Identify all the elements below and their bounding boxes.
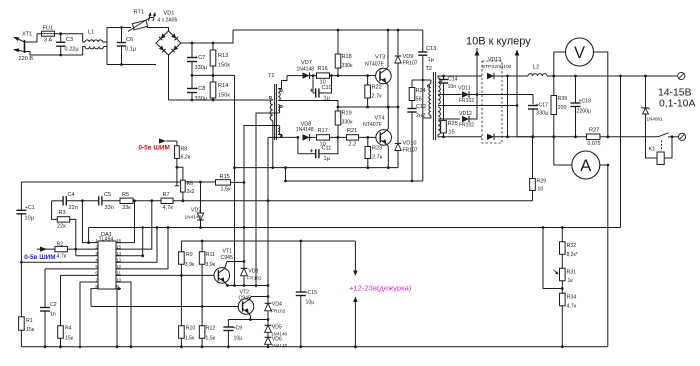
wire XT1 to fuse xyxy=(25,34,42,42)
node VD2 bottom xyxy=(199,226,202,229)
RT1 arrows xyxy=(149,13,151,21)
svg-text:330к: 330к xyxy=(342,120,354,126)
svg-text:+C17: +C17 xyxy=(536,103,549,109)
node C6 top xyxy=(120,26,123,29)
svg-text:VT3: VT3 xyxy=(375,55,385,61)
svg-text:FR102: FR102 xyxy=(271,309,286,315)
node VD11 cathode xyxy=(476,93,479,96)
wire filter vertical xyxy=(106,28,108,65)
node R35 bottom xyxy=(552,135,555,138)
svg-text:VD13: VD13 xyxy=(488,57,501,63)
node rectifier output xyxy=(506,75,509,78)
node midpoint riser on lower rail xyxy=(233,166,236,169)
node pin15 riser xyxy=(150,199,153,202)
diode VD5 1N4148 xyxy=(267,320,269,326)
resistor R13 150k xyxy=(212,43,214,50)
svg-text:FR102: FR102 xyxy=(459,122,474,128)
svg-text:R14: R14 xyxy=(218,83,228,89)
resistor R10 1.5k xyxy=(180,275,182,325)
node VT1 collector / VD3 top xyxy=(243,260,246,263)
svg-text:10µ: 10µ xyxy=(25,216,35,222)
node Y227 riser on pin1 line xyxy=(87,241,90,244)
capacitor C1 10u xyxy=(20,182,22,210)
svg-text:22к: 22к xyxy=(57,224,66,230)
svg-text:VD11: VD11 xyxy=(458,86,471,92)
svg-text:C2: C2 xyxy=(50,302,57,308)
svg-text:R25: R25 xyxy=(448,121,458,127)
connector XT1 (220V input) xyxy=(24,40,26,53)
svg-text:R4: R4 xyxy=(65,326,72,332)
node pin2/R3 xyxy=(74,248,77,251)
diode VD3 FR102 xyxy=(243,262,245,269)
svg-text:330к: 330к xyxy=(342,63,354,69)
node R23 bottom xyxy=(366,166,369,169)
svg-text:3 A: 3 A xyxy=(44,38,52,44)
svg-text:R1: R1 xyxy=(26,318,33,324)
svg-text:330µ: 330µ xyxy=(195,96,208,102)
capacitor C2 1n xyxy=(44,269,46,307)
node midpoint column on emitter line xyxy=(233,284,236,287)
output terminal + xyxy=(678,72,685,79)
wire pin6 / R4 xyxy=(61,274,95,276)
wire VT1 emitter to node xyxy=(224,282,227,286)
svg-text:R23: R23 xyxy=(372,146,382,152)
wire +12V standby rail xyxy=(181,240,355,242)
wire filter bottom to bridge xyxy=(107,64,156,66)
resistor R24 56 xyxy=(411,80,413,88)
node VD7/R16 xyxy=(312,74,315,77)
wire coil left to zener xyxy=(646,115,658,159)
svg-text:+C7: +C7 xyxy=(195,55,205,61)
node V- on shunt rail xyxy=(606,135,609,138)
node VT4 collector xyxy=(387,106,390,109)
wire VT1 collector xyxy=(224,262,244,269)
node R22 bottom xyxy=(366,106,369,109)
svg-text:C6: C6 xyxy=(126,37,133,43)
wire VT1 emitter node line xyxy=(228,285,269,287)
ammeter PA1 xyxy=(554,137,572,165)
svg-text:22n: 22n xyxy=(69,205,78,211)
svg-text:R31: R31 xyxy=(567,270,577,276)
svg-text:VD2: VD2 xyxy=(191,208,201,214)
transistor VT4 NT407F xyxy=(376,130,392,146)
diode VD6 1N4148 xyxy=(267,332,269,337)
diode VD8 1N4148 xyxy=(303,134,310,140)
wire rectifier output vertical xyxy=(507,76,509,137)
wire midpoint riser down to VT1 emitter line xyxy=(234,75,236,285)
dual schottky VD13 STPS20H100 (dashed box) xyxy=(482,61,502,143)
svg-text:C945: C945 xyxy=(221,255,234,261)
wire pin8 to VT2 base line xyxy=(91,289,94,307)
diode VD12 FR102 xyxy=(462,116,469,122)
svg-text:15к: 15к xyxy=(65,336,74,342)
capacitor C11 1u xyxy=(297,137,299,153)
svg-text:150к: 150к xyxy=(218,63,230,69)
resistor R18 330k xyxy=(337,30,339,54)
wire driver lower rail xyxy=(235,167,399,169)
svg-text:200: 200 xyxy=(558,105,567,111)
svg-text:0-5в ШИМ: 0-5в ШИМ xyxy=(139,145,170,152)
node column on Y227 xyxy=(243,226,246,229)
wire VT2 collector xyxy=(249,297,268,300)
svg-text:C11: C11 xyxy=(322,146,332,152)
svg-text:1N4148: 1N4148 xyxy=(296,127,314,133)
svg-text:10µ: 10µ xyxy=(234,336,243,342)
capacitor C4 22n xyxy=(52,200,63,202)
resistor R19 330k xyxy=(337,107,339,111)
svg-text:6,2к: 6,2к xyxy=(181,155,191,161)
diode VD10 FR107 xyxy=(397,107,399,144)
svg-text:150к: 150к xyxy=(218,93,230,99)
T2 secondary winding lower xyxy=(438,107,440,135)
node C4/C5 xyxy=(81,199,84,202)
node R18 bottom xyxy=(337,74,340,77)
T2 primary winding xyxy=(429,84,431,116)
node VD8 anode xyxy=(297,136,300,139)
svg-text:R32: R32 xyxy=(567,243,577,249)
svg-text:1,5к: 1,5к xyxy=(221,187,232,193)
wire pin1 from Y201 xyxy=(82,201,94,243)
wire pin12 riser xyxy=(116,228,168,269)
wire Y227 riser to pin1 xyxy=(88,228,90,243)
resistor R17 10 xyxy=(317,135,330,140)
svg-text:1N4061: 1N4061 xyxy=(647,117,664,122)
svg-text:R12: R12 xyxy=(206,326,216,332)
wire V/A riser down xyxy=(607,165,609,347)
svg-text:330µ: 330µ xyxy=(536,111,549,117)
svg-text:3,9к: 3,9к xyxy=(185,262,195,268)
svg-text:FR107: FR107 xyxy=(403,61,418,67)
node pin9 xyxy=(118,287,121,290)
node T1 mid secondary column on emitter line xyxy=(255,284,258,287)
capacitor C18 2200u xyxy=(574,75,577,78)
svg-text:VD5: VD5 xyxy=(272,325,282,331)
wire R2 to pin2 xyxy=(68,248,95,250)
svg-text:1N4148: 1N4148 xyxy=(185,215,202,221)
resistor R3 22k xyxy=(52,201,58,220)
svg-text:R34: R34 xyxy=(567,295,577,301)
voltmeter PV1 xyxy=(554,52,566,76)
pin 7 xyxy=(94,281,98,283)
svg-text:1µ: 1µ xyxy=(428,57,435,63)
pin 9 xyxy=(116,288,121,290)
resistor R21 2.2 xyxy=(347,135,359,140)
node VD4 bottom xyxy=(267,318,270,321)
diode VD7 1N4148 xyxy=(287,75,303,77)
transistor VT2 C945 xyxy=(238,299,254,315)
svg-text:VD1: VD1 xyxy=(164,11,175,17)
svg-text:8,2к*: 8,2к* xyxy=(567,252,578,258)
node R32 top on Y227 xyxy=(561,226,564,229)
PWM input arrow (red) xyxy=(166,140,177,142)
capacitor C7 330u xyxy=(191,43,193,57)
svg-text:+C18: +C18 xyxy=(579,99,592,105)
VD13 top diode xyxy=(487,73,494,79)
wire pin4 from left rail xyxy=(21,261,94,263)
svg-text:4,7к: 4,7к xyxy=(163,205,174,211)
wire VD13 outputs join xyxy=(495,75,529,77)
capacitor C12 2n2 xyxy=(411,101,413,109)
wire VT3 collector to bus xyxy=(386,30,388,69)
svg-text:R7: R7 xyxy=(163,192,170,198)
node VT3 emitter xyxy=(387,106,390,109)
wire minus output rail xyxy=(517,136,587,138)
wire pin14 riser xyxy=(116,228,143,256)
wire T2 tap4 to VD12 xyxy=(438,118,460,120)
svg-text:C4: C4 xyxy=(68,192,75,198)
node feedback riser top xyxy=(619,75,622,78)
svg-text:2.7к: 2.7к xyxy=(372,94,383,100)
svg-text:3,9к: 3,9к xyxy=(206,262,216,268)
svg-text:L2: L2 xyxy=(533,65,539,71)
pin 3 xyxy=(94,255,98,257)
wire fuse to C3 node xyxy=(55,33,61,35)
wire bridge minus down xyxy=(168,55,170,100)
node pin13 on Y227 xyxy=(156,226,159,229)
wire T2 primary bottom xyxy=(423,116,431,182)
node L2 out xyxy=(552,75,555,78)
node VT3 collector on bus xyxy=(387,29,390,32)
svg-text:1к: 1к xyxy=(568,278,574,284)
wire pin15 riser xyxy=(116,201,152,249)
svg-text:VD9: VD9 xyxy=(403,54,414,60)
node A right xyxy=(606,164,609,167)
svg-text:1,5к: 1,5к xyxy=(206,336,216,342)
wire C3 to L1 bottom xyxy=(61,47,85,56)
node pin12 on Y227 xyxy=(167,226,170,229)
svg-text:T2: T2 xyxy=(426,66,433,72)
T1 secondary winding middle xyxy=(278,105,279,114)
wire primary return rail xyxy=(286,180,423,182)
node VD4 column on Y201 xyxy=(267,199,270,202)
svg-text:FU1: FU1 xyxy=(43,26,54,32)
node lower rail / midpoint riser xyxy=(284,166,287,169)
node rectifier output bottom xyxy=(506,135,509,138)
svg-text:VD10: VD10 xyxy=(403,141,417,147)
node R12 top on VT2 base line xyxy=(201,305,204,308)
pin 5 xyxy=(94,268,98,270)
wire C3 to L1 top xyxy=(61,34,85,42)
node R16/C10 xyxy=(330,74,333,77)
node R25 bottom xyxy=(442,135,445,138)
node C17 bottom xyxy=(532,135,535,138)
wire VT4 emitter to lower rail xyxy=(386,144,388,168)
wire R21 to VT4 base xyxy=(359,136,376,138)
node C18 bottom xyxy=(574,135,577,138)
svg-text:220 В: 220 В xyxy=(19,56,34,62)
diode VD4 FR102 xyxy=(267,297,269,304)
wire bridge plus to bus riser xyxy=(181,30,233,43)
wire pin11 to VT1 base xyxy=(116,274,214,276)
svg-text:1n: 1n xyxy=(50,312,56,318)
wire VD8 line to VD4 column xyxy=(268,136,282,138)
capacitor C14 10n xyxy=(443,76,445,79)
svg-text:15: 15 xyxy=(449,130,455,136)
node C14 top xyxy=(442,75,445,78)
resistor R35 200 xyxy=(552,75,555,78)
node R23 top xyxy=(366,136,369,139)
svg-text:C5: C5 xyxy=(104,192,111,198)
svg-text:C12: C12 xyxy=(416,104,426,110)
wire T1 bottom secondary top to VT1 collector column xyxy=(244,126,278,262)
svg-text:1µ: 1µ xyxy=(324,156,331,162)
pin 16 xyxy=(116,242,121,244)
IC DA1 TL494 xyxy=(98,241,116,289)
pin 13 xyxy=(116,261,121,263)
cooler - arrow and riser xyxy=(516,50,518,106)
svg-text:R17: R17 xyxy=(318,128,328,134)
capacitor C17 330u xyxy=(532,95,534,105)
node center-tap to rail xyxy=(516,106,518,137)
node R11 top xyxy=(201,240,204,243)
node R9 bottom on pin11 line xyxy=(180,274,183,277)
resistor R1 15k xyxy=(19,317,25,331)
node R17/R19/R21 xyxy=(337,136,340,139)
resistor R34 4.7k xyxy=(560,293,566,306)
wire T2 tap1 (top) xyxy=(438,76,482,78)
T1 secondary winding top xyxy=(278,89,280,101)
svg-text:R13: R13 xyxy=(218,53,228,59)
resistor R15 1.5k xyxy=(216,180,231,185)
node R31/R34 junction xyxy=(561,287,564,290)
svg-text:L1: L1 xyxy=(88,30,94,36)
svg-text:1,5к: 1,5к xyxy=(185,336,195,342)
wire top reference line xyxy=(21,181,215,183)
wire voltage feedback riser xyxy=(620,76,622,228)
transistor VT3 NT407F xyxy=(376,68,392,84)
resistor R23 2.7k xyxy=(367,137,369,146)
capacitor C6 0.1u xyxy=(121,28,123,43)
svg-text:R9: R9 xyxy=(186,252,193,258)
node R34 bottom xyxy=(561,345,564,348)
node C3 top xyxy=(59,32,62,35)
wire R15 right to T1/VT1 column xyxy=(231,181,245,183)
svg-text:R2: R2 xyxy=(57,241,64,247)
wire coil right to output xyxy=(664,137,672,158)
svg-text:A: A xyxy=(580,157,591,175)
wire RT1 to bridge top xyxy=(147,28,169,32)
resistor R5 33k xyxy=(102,200,120,202)
svg-text:VD6: VD6 xyxy=(272,336,282,342)
node R19 top xyxy=(337,106,340,109)
wire T1 top secondary return to node X rail xyxy=(278,101,338,108)
node T1 primary on lower rail xyxy=(271,166,274,169)
svg-text:2.2: 2.2 xyxy=(349,141,357,147)
svg-text:C945: C945 xyxy=(239,295,252,301)
capacitor C13 1u xyxy=(422,30,424,52)
svg-text:33n: 33n xyxy=(105,205,114,211)
svg-text:2к2: 2к2 xyxy=(187,189,195,195)
relay K1 coil xyxy=(661,141,663,152)
svg-text:C10: C10 xyxy=(322,85,332,91)
svg-text:4 x 2A05: 4 x 2A05 xyxy=(158,18,178,24)
resistor R4 15k xyxy=(60,275,62,325)
svg-text:R27: R27 xyxy=(589,128,599,134)
node center tap xyxy=(516,104,519,107)
wire VT4 collector to node X xyxy=(386,107,388,131)
resistor R2 4.7k (PWM input) xyxy=(37,248,55,250)
svg-text:R3: R3 xyxy=(59,210,66,216)
pin 14 xyxy=(116,255,121,257)
wire standby arrow up xyxy=(354,301,356,347)
wire pin3 from R3/R2 node xyxy=(76,255,94,257)
wire T2 tap2 to VD11 xyxy=(438,94,462,96)
node VD4 column on VT1 emitter line xyxy=(267,284,270,287)
svg-text:33к: 33к xyxy=(122,205,131,211)
node VD9 bottom xyxy=(397,106,400,109)
svg-text:NT407F: NT407F xyxy=(363,122,382,128)
wire T1 primary bottom down to driver lower rail xyxy=(272,121,274,168)
svg-text:4,7к: 4,7к xyxy=(567,304,577,310)
node C7 top xyxy=(191,42,194,45)
svg-text:0,1-10А: 0,1-10А xyxy=(659,99,695,110)
svg-text:R5: R5 xyxy=(122,192,129,198)
wire primary top xyxy=(412,79,431,81)
svg-text:VD12: VD12 xyxy=(459,111,472,117)
capacitor C3 0.22u xyxy=(60,34,62,42)
capacitor C8 330u xyxy=(191,75,193,88)
svg-text:R21: R21 xyxy=(347,128,357,134)
wire VT3 emitter to node X rail xyxy=(386,83,388,107)
wire C13 column through primary xyxy=(422,80,424,118)
svg-text:R11: R11 xyxy=(206,252,215,258)
svg-text:T1: T1 xyxy=(268,73,275,79)
T1 secondary winding bottom xyxy=(278,126,280,135)
node VT4 emitter xyxy=(387,166,390,169)
node C12 bottom on primary return xyxy=(411,180,414,183)
output terminal - xyxy=(678,133,685,140)
wire VT2 emitter line xyxy=(228,319,268,321)
wire pin9 down xyxy=(117,289,119,347)
resistor R32 8.2k xyxy=(561,228,563,242)
resistor R7 4.7k xyxy=(161,198,173,203)
svg-text:+C8: +C8 xyxy=(195,86,205,92)
node R18 top on bus xyxy=(337,29,340,32)
svg-text:10В к кулеру: 10В к кулеру xyxy=(466,36,531,48)
pin 8 xyxy=(94,288,98,290)
wire minus rail to T1 xyxy=(169,99,273,101)
relay K1 contact xyxy=(658,133,669,137)
svg-text:0.22µ: 0.22µ xyxy=(65,47,80,53)
svg-text:XT1: XT1 xyxy=(22,32,32,38)
svg-text:R22: R22 xyxy=(372,85,382,91)
wire XT1 bottom to C3/L1 xyxy=(25,52,61,56)
pin 15 xyxy=(116,248,121,250)
node C6 bottom xyxy=(120,63,123,66)
node C3 bottom xyxy=(59,54,62,57)
svg-text:0.075: 0.075 xyxy=(588,141,601,147)
svg-text:FR102: FR102 xyxy=(247,276,262,282)
node VD9 top on bus xyxy=(397,29,400,32)
svg-text:10: 10 xyxy=(538,187,544,193)
svg-text:R10: R10 xyxy=(186,326,196,332)
svg-text:+C15: +C15 xyxy=(305,290,318,296)
capacitor C10 1u xyxy=(312,76,314,93)
svg-text:R35: R35 xyxy=(558,96,568,102)
node pin4 on left rail xyxy=(20,261,23,264)
svg-text:R8: R8 xyxy=(181,147,188,153)
wire pin5 / C2 xyxy=(45,268,94,270)
pin 6 xyxy=(94,274,98,276)
wire L1 to filter node xyxy=(103,41,108,43)
T2 secondary winding upper xyxy=(438,78,440,104)
node pin14 on Y227 xyxy=(141,226,144,229)
capacitor C9 10u xyxy=(227,320,229,327)
resistor R11 3.9k xyxy=(201,241,203,252)
wire VT2 base line xyxy=(91,306,238,308)
svg-text:+C1: +C1 xyxy=(25,205,35,211)
pin 12 xyxy=(116,268,121,270)
